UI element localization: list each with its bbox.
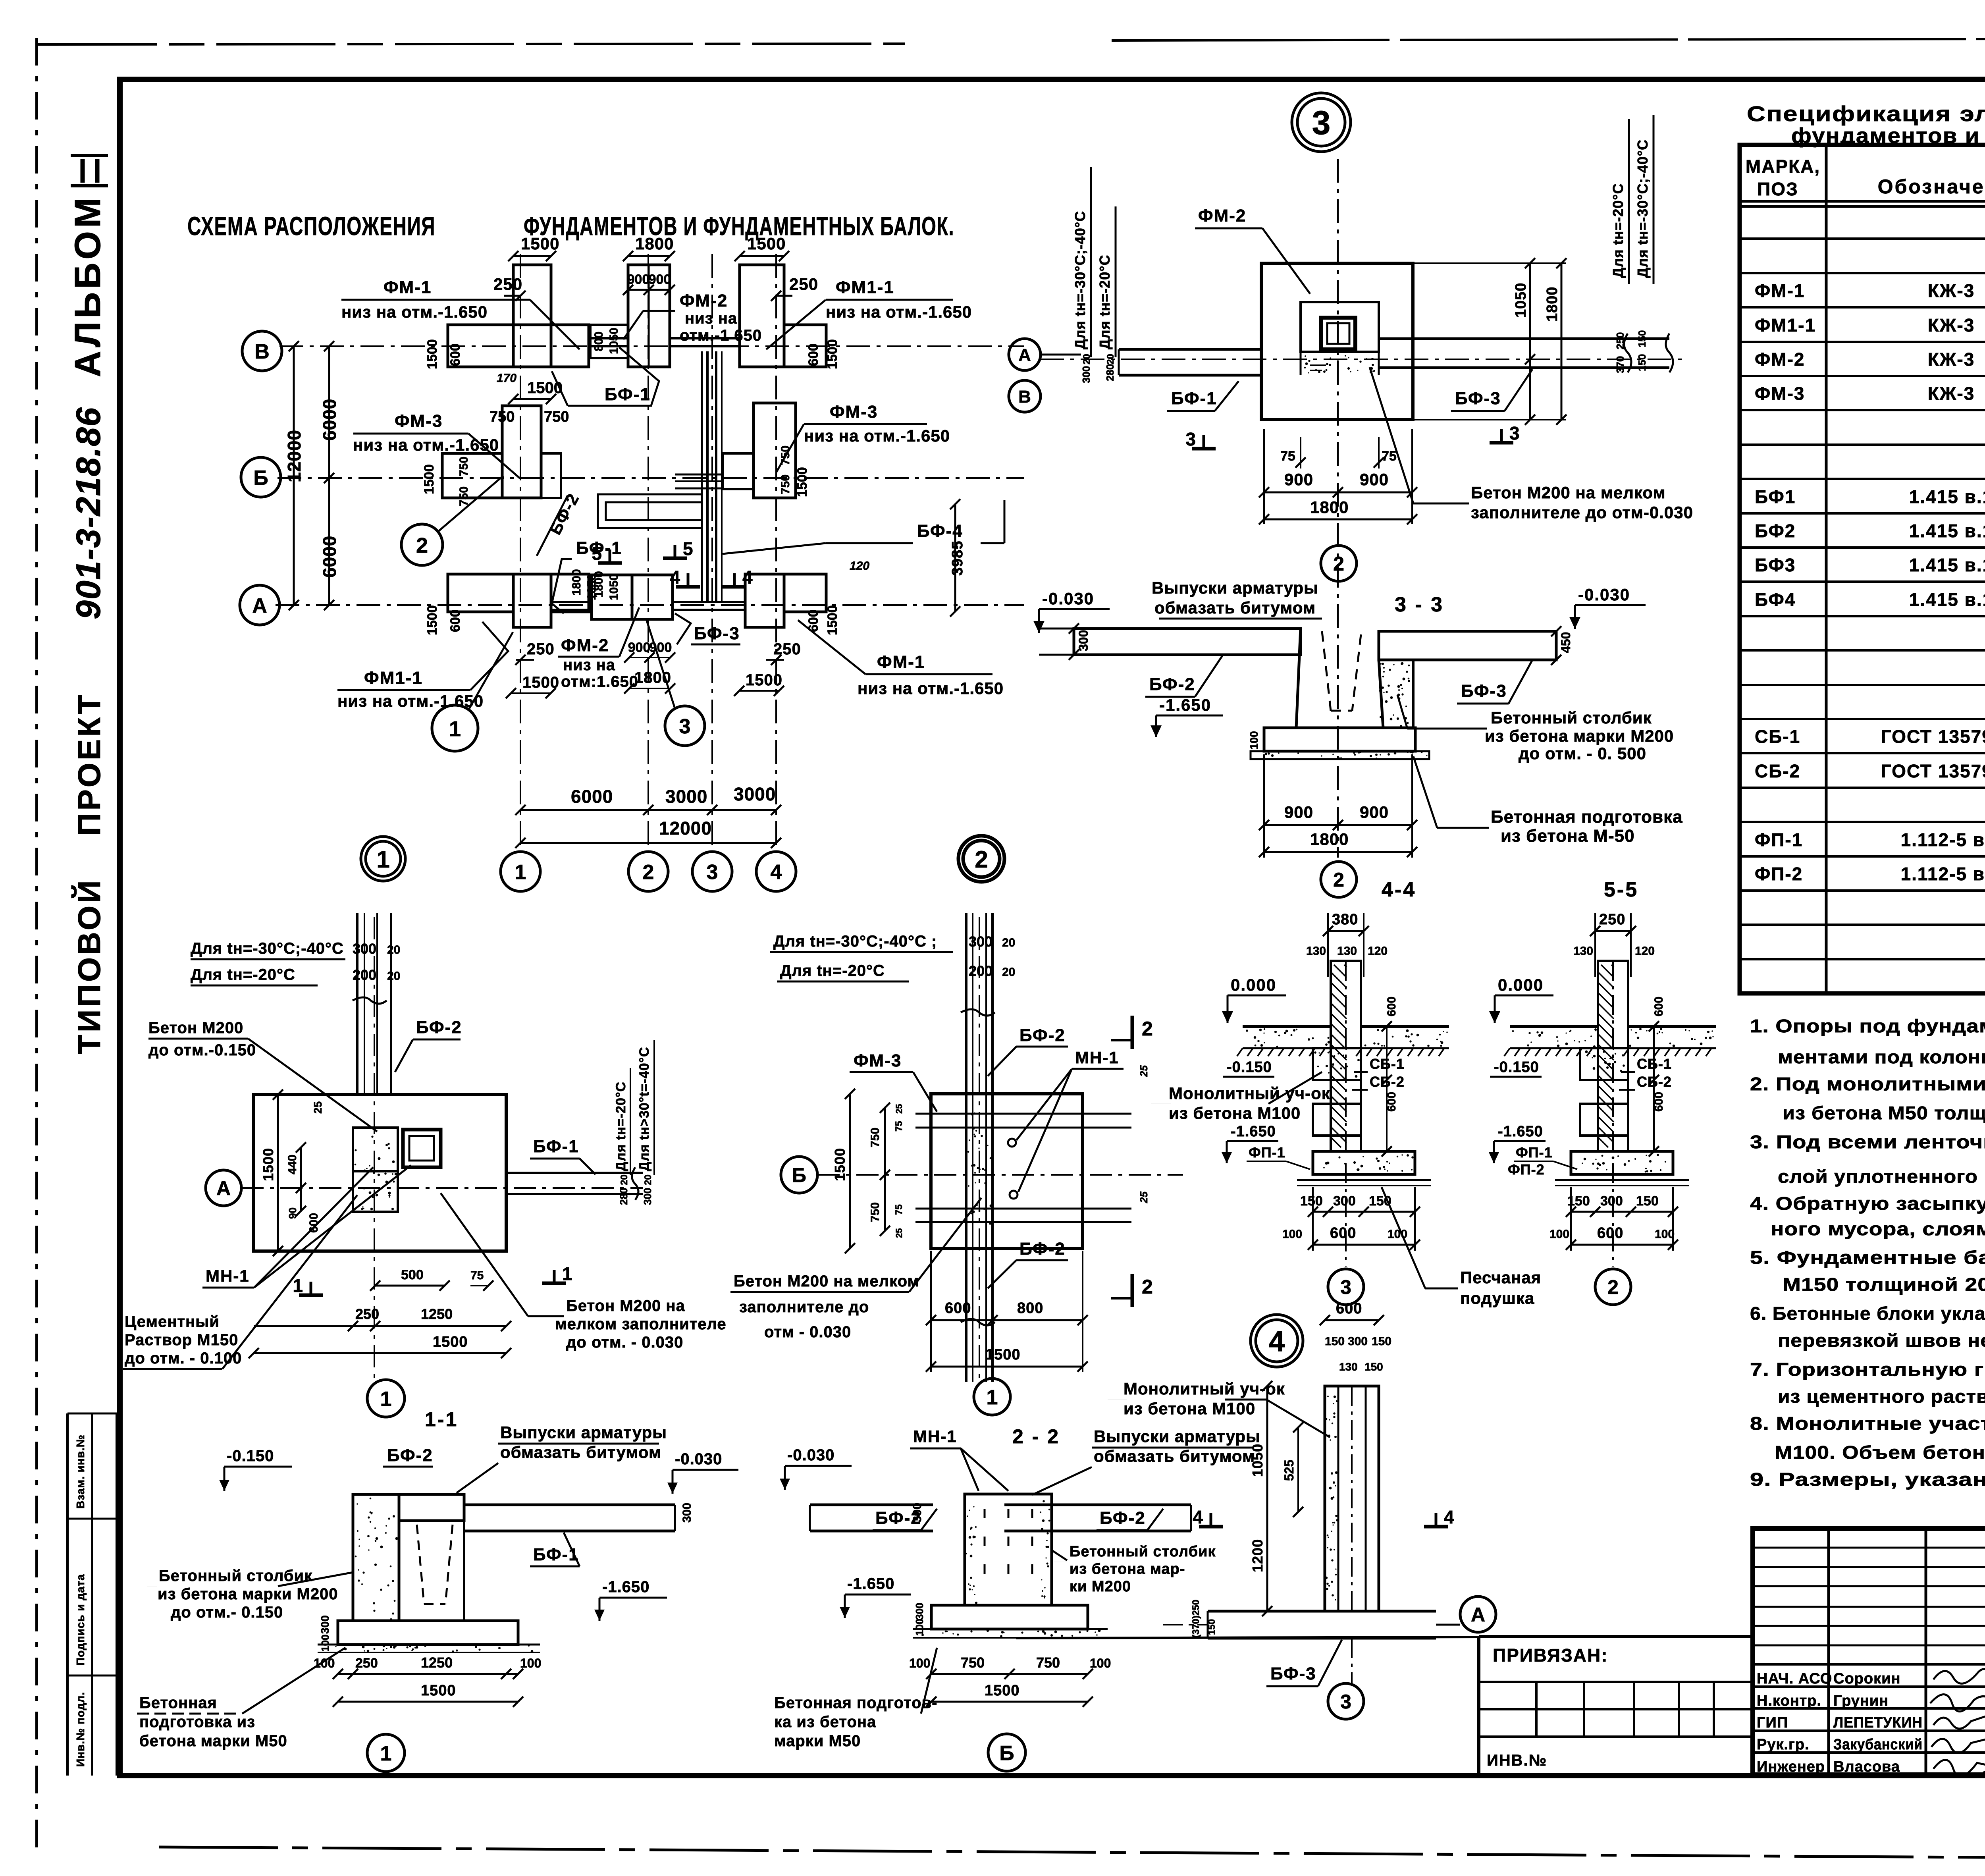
svg-text:ФМ1-1: ФМ1-1 <box>836 278 894 297</box>
svg-text:12000: 12000 <box>659 818 712 839</box>
svg-text:ПРИВЯЗАН:: ПРИВЯЗАН: <box>1493 1645 1608 1666</box>
svg-text:Бетонный столбик: Бетонный столбик <box>1070 1543 1216 1560</box>
svg-text:-1.650: -1.650 <box>602 1578 649 1596</box>
svg-text:1. Опоры под фундаментные балк: 1. Опоры под фундаментные балки бетониро… <box>1750 1016 1985 1036</box>
wall section pad underlayer <box>1297 1179 1431 1181</box>
svg-text:(370)250: (370)250 <box>1191 1600 1201 1638</box>
plan top dimension 1500 over pad 4 <box>740 255 784 257</box>
svg-text:900: 900 <box>627 272 650 287</box>
svg-text:1500: 1500 <box>795 467 810 497</box>
svg-text:130: 130 <box>1339 1361 1358 1373</box>
svg-text:750: 750 <box>869 1128 882 1147</box>
svg-text:170: 170 <box>497 372 516 385</box>
svg-text:1500: 1500 <box>522 674 559 691</box>
svg-text:низ на отм.-1.650: низ на отм.-1.650 <box>353 436 499 454</box>
svg-text:300: 300 <box>1333 1193 1356 1209</box>
svg-text:Монолитный уч-ок: Монолитный уч-ок <box>1124 1379 1285 1398</box>
svg-text:ГОСТ 13579-78: ГОСТ 13579-78 <box>1881 761 1985 781</box>
svg-text:1250: 1250 <box>421 1306 453 1322</box>
svg-text:1500: 1500 <box>421 1682 456 1699</box>
svg-text:подушка: подушка <box>1460 1289 1534 1307</box>
svg-text:Выпуски арматуры: Выпуски арматуры <box>1152 578 1318 597</box>
svg-text:ЛЕПЕТУКИН: ЛЕПЕТУКИН <box>1833 1714 1923 1731</box>
svg-text:250: 250 <box>773 640 801 658</box>
svg-text:1800: 1800 <box>1310 498 1349 517</box>
svg-text:БФ2: БФ2 <box>1755 521 1796 541</box>
node 3 bottom dims 900 900 1800 <box>1264 492 1412 494</box>
svg-text:150: 150 <box>1636 1193 1659 1209</box>
svg-text:25: 25 <box>1138 1065 1150 1077</box>
svg-text:обмазать битумом: обмазать битумом <box>1094 1447 1255 1465</box>
plan bottom dimension chain 6000 3000 3000 <box>520 809 776 811</box>
svg-text:Бетонная: Бетонная <box>139 1694 217 1712</box>
svg-text:Выпуски арматуры: Выпуски арматуры <box>500 1423 667 1442</box>
svg-text:1050: 1050 <box>1513 282 1529 318</box>
section 2-2 bottom dims <box>931 1673 1088 1675</box>
svg-text:ФП-2: ФП-2 <box>1508 1161 1545 1178</box>
svg-text:Для tн=-30°C;-40°C: Для tн=-30°C;-40°C <box>191 940 344 957</box>
svg-text:низ на: низ на <box>685 310 737 327</box>
svg-text:заполнителе до: заполнителе до <box>739 1298 869 1316</box>
plan bottom axis circle 1 <box>501 852 540 891</box>
node 2 beam BF-2 vertical <box>965 913 967 1382</box>
svg-text:-0.030: -0.030 <box>1042 589 1094 608</box>
node 3 beam BF-1 left <box>1119 348 1261 351</box>
svg-text:100: 100 <box>314 1656 335 1670</box>
svg-text:ПОЗ: ПОЗ <box>1757 179 1798 199</box>
svg-text:СБ-1: СБ-1 <box>1755 726 1800 747</box>
svg-text:БФ-3: БФ-3 <box>694 624 740 643</box>
plan big node circle 2 <box>958 836 1004 882</box>
svg-text:ФМ-3: ФМ-3 <box>830 402 878 422</box>
svg-text:25: 25 <box>1138 1192 1150 1203</box>
svg-text:250: 250 <box>355 1306 379 1322</box>
section 1-1 pedestal top slab <box>399 1494 464 1521</box>
svg-text:1800: 1800 <box>570 569 583 596</box>
svg-text:4: 4 <box>1193 1507 1203 1527</box>
node 2 inner rails <box>915 1113 1131 1115</box>
svg-text:подготовка из: подготовка из <box>139 1713 255 1731</box>
svg-text:-0.030: -0.030 <box>787 1446 834 1464</box>
plan dim 3985 rotated <box>954 504 956 611</box>
svg-text:БФ-2: БФ-2 <box>416 1018 462 1037</box>
svg-text:800: 800 <box>1017 1300 1043 1317</box>
plan axis circle V <box>242 331 282 371</box>
plan pad FM1-1 at axis4/V <box>740 265 784 367</box>
svg-text:25: 25 <box>312 1101 324 1114</box>
svg-text:100: 100 <box>1248 731 1260 750</box>
svg-text:75: 75 <box>470 1269 484 1282</box>
wall section foundation blocks <box>1580 1048 1628 1080</box>
section 1-1 pedestal concrete column <box>353 1494 399 1621</box>
node 4 left vertical dims <box>1266 1386 1268 1611</box>
svg-text:750: 750 <box>1036 1654 1060 1671</box>
svg-text:600: 600 <box>806 343 821 366</box>
svg-text:380: 380 <box>1332 911 1358 928</box>
plan pad FM-1 at axis1/V <box>513 265 551 367</box>
plan bottom axis circle 2 <box>628 852 668 891</box>
svg-text:150: 150 <box>1325 1335 1345 1348</box>
svg-text:ПРОЕКТ: ПРОЕКТ <box>71 692 107 836</box>
plan top dimension 1500 over pad 1 <box>513 255 551 257</box>
svg-text:300: 300 <box>642 1188 653 1205</box>
svg-text:БФ-2: БФ-2 <box>1019 1239 1066 1259</box>
section 3-3 base plate <box>1264 728 1415 751</box>
svg-text:Закубанский: Закубанский <box>1833 1736 1923 1753</box>
plan pad FM-3 at axis4/B <box>754 403 796 498</box>
svg-text:900: 900 <box>628 640 651 655</box>
svg-text:1800: 1800 <box>1310 830 1349 848</box>
svg-text:150: 150 <box>1636 354 1648 371</box>
plan section marks 5 <box>598 561 622 565</box>
section 1-1 beam BF-1 right slab <box>464 1504 675 1506</box>
svg-text:1500: 1500 <box>433 1334 468 1350</box>
section 2-2 prep layer <box>913 1628 1108 1630</box>
svg-text:1: 1 <box>515 861 526 884</box>
svg-text:ФМ1-1: ФМ1-1 <box>364 668 423 688</box>
svg-text:5: 5 <box>683 538 693 559</box>
section 3-3 prep layer <box>1251 751 1429 759</box>
svg-text:из бетона марки М200: из бетона марки М200 <box>1485 727 1674 745</box>
svg-text:2: 2 <box>1333 869 1344 891</box>
svg-text:Взам. инв.№: Взам. инв.№ <box>74 1434 87 1509</box>
svg-text:3 - 3: 3 - 3 <box>1395 593 1444 616</box>
svg-text:Для tн=-30°C;-40°C: Для tн=-30°C;-40°C <box>1634 139 1651 278</box>
node 2 pad outline <box>931 1094 1083 1248</box>
svg-text:1: 1 <box>380 1388 392 1411</box>
svg-text:300: 300 <box>1348 1335 1368 1348</box>
svg-text:20: 20 <box>1002 966 1015 979</box>
svg-text:Обозначение: Обозначение <box>1878 175 1985 198</box>
svg-text:В: В <box>254 340 270 363</box>
svg-text:5: 5 <box>592 543 602 564</box>
plan pad FM1-1 at axis1/A <box>513 574 551 627</box>
wall section bottom axis circle <box>1328 1269 1364 1305</box>
svg-text:НАЧ. АСО: НАЧ. АСО <box>1757 1670 1832 1687</box>
wall section top dim 250 <box>1595 930 1631 932</box>
svg-text:130: 130 <box>1573 945 1593 958</box>
section 3-3 concrete column stipple <box>1379 659 1410 727</box>
svg-text:800: 800 <box>592 332 605 351</box>
svg-text:-0.150: -0.150 <box>227 1447 274 1465</box>
svg-text:120: 120 <box>850 559 869 573</box>
spec table outer box <box>1740 145 1985 993</box>
plan bottom axis circle 3 <box>692 852 732 891</box>
outer border bottom edge <box>159 1847 1985 1861</box>
section 2-2 pedestal <box>965 1494 1052 1605</box>
privyazan box <box>1016 1637 1479 1638</box>
svg-text:Раствор М150: Раствор М150 <box>125 1331 238 1349</box>
svg-text:Песчаная: Песчаная <box>1460 1268 1541 1287</box>
svg-text:600: 600 <box>1652 997 1665 1016</box>
svg-text:Цементный: Цементный <box>125 1313 220 1330</box>
svg-text:МН-1: МН-1 <box>206 1267 250 1285</box>
svg-text:3: 3 <box>1340 1276 1351 1298</box>
svg-text:25: 25 <box>894 1104 904 1114</box>
svg-text:75: 75 <box>1280 449 1295 464</box>
svg-text:600: 600 <box>1330 1225 1356 1242</box>
stamp signatures <box>1930 1669 1985 1777</box>
svg-text:из бетона М100: из бетона М100 <box>1169 1104 1301 1122</box>
plan horizontal axis line A <box>276 604 1024 606</box>
plan horizontal axis line V <box>279 345 1024 347</box>
svg-text:Монолитный уч-ок: Монолитный уч-ок <box>1169 1084 1330 1103</box>
plan dimension 900 900 over pad 2 <box>628 289 670 291</box>
wall section top dim 380 <box>1328 930 1364 932</box>
svg-text:А: А <box>1018 345 1031 365</box>
node 1 axis circle A <box>206 1170 241 1206</box>
svg-text:250: 250 <box>493 275 522 293</box>
svg-text:20: 20 <box>619 1174 630 1185</box>
node 3 bottom axis circle 2 <box>1321 546 1357 581</box>
svg-text:300: 300 <box>911 1503 924 1523</box>
stamp left thin rows <box>1753 1547 1985 1549</box>
wall section masonry wall <box>1331 961 1361 1151</box>
plan node callout circle 3 <box>665 706 705 746</box>
svg-text:5. Фундаментные балки укла: 5. Фундаментные балки укладывать на слой… <box>1750 1247 1985 1268</box>
svg-text:Н.контр.: Н.контр. <box>1757 1693 1821 1709</box>
node 3 big circle <box>1292 93 1351 152</box>
svg-text:БФ-1: БФ-1 <box>533 1137 579 1156</box>
svg-text:1500: 1500 <box>425 605 440 635</box>
svg-text:370: 370 <box>1614 356 1626 373</box>
svg-text:600: 600 <box>945 1300 971 1317</box>
node 1 section marks 1 <box>299 1294 323 1297</box>
svg-text:отм.-1 650: отм.-1 650 <box>680 327 762 344</box>
svg-text:3000: 3000 <box>665 786 707 807</box>
node 2 small circles MN-1 targets <box>1008 1139 1016 1147</box>
svg-text:низ на отм.-1.650: низ на отм.-1.650 <box>804 426 950 445</box>
svg-text:900: 900 <box>1360 803 1389 821</box>
svg-text:марки М50: марки М50 <box>774 1732 861 1750</box>
svg-text:100: 100 <box>1655 1228 1675 1241</box>
plan axis circle A <box>240 585 279 625</box>
svg-text:1: 1 <box>987 1386 998 1409</box>
plan pad FM-1 at axis4/A <box>745 574 784 627</box>
section 1-1 dashed cone <box>417 1525 424 1604</box>
wall section pad underlayer <box>1555 1179 1689 1181</box>
svg-text:250: 250 <box>527 640 555 658</box>
svg-text:ФП-1: ФП-1 <box>1516 1144 1553 1161</box>
svg-text:-1.650: -1.650 <box>1498 1123 1543 1140</box>
svg-text:600: 600 <box>1385 997 1398 1016</box>
svg-text:МН-1: МН-1 <box>1075 1048 1119 1067</box>
svg-text:ФМ-1: ФМ-1 <box>384 278 432 297</box>
svg-text:100: 100 <box>913 1619 925 1636</box>
node 2 axis dash-dot <box>817 1174 1183 1176</box>
svg-text:300: 300 <box>1600 1193 1623 1209</box>
svg-text:М100. Объем бетона на мо: М100. Объем бетона на монолитные участки… <box>1775 1442 1985 1463</box>
section 1-1 pedestal body <box>399 1521 464 1621</box>
node 3 right vertical dims 1050 1800 <box>1529 263 1531 420</box>
svg-text:2: 2 <box>1142 1018 1153 1040</box>
svg-text:Инв.№ подл.: Инв.№ подл. <box>74 1692 87 1767</box>
wall section floor slab <box>1243 1025 1331 1028</box>
svg-text:150: 150 <box>1300 1193 1323 1209</box>
svg-text:120: 120 <box>1368 945 1388 958</box>
svg-text:ФМ-2: ФМ-2 <box>561 636 609 655</box>
node 3 pedestal below column <box>1300 352 1302 375</box>
svg-text:1050: 1050 <box>607 328 621 354</box>
wall section bottom dims <box>1571 1211 1673 1213</box>
section 3-3 pedestal dashed cone <box>1322 631 1331 711</box>
svg-text:ФП-1: ФП-1 <box>1755 829 1803 850</box>
svg-text:250: 250 <box>789 275 818 293</box>
svg-text:900: 900 <box>1284 470 1313 489</box>
svg-text:4-4: 4-4 <box>1382 878 1416 901</box>
svg-text:БФ-1: БФ-1 <box>533 1545 579 1564</box>
svg-text:600: 600 <box>1597 1225 1623 1242</box>
svg-text:1.415 в.1: 1.415 в.1 <box>1909 589 1985 610</box>
svg-text:низ на отм.-1.650: низ на отм.-1.650 <box>858 679 1004 698</box>
svg-text:100: 100 <box>520 1656 541 1670</box>
node 3 beam break squiggle <box>1624 334 1631 372</box>
svg-text:БФ-2: БФ-2 <box>1019 1026 1066 1045</box>
svg-text:отм:1.650: отм:1.650 <box>561 673 638 690</box>
svg-text:500: 500 <box>401 1267 424 1282</box>
svg-text:100: 100 <box>909 1656 930 1670</box>
svg-text:из бетона мар-: из бетона мар- <box>1070 1561 1185 1577</box>
svg-text:Бетонная подготовка: Бетонная подготовка <box>1491 807 1683 827</box>
svg-text:Для tн=-20°C: Для tн=-20°C <box>613 1082 628 1171</box>
plan left dimension chain 6000 6000 <box>328 346 330 605</box>
svg-text:Бетон М200 на мелком: Бетон М200 на мелком <box>1471 483 1666 502</box>
wall section soil hatch <box>1237 1048 1325 1056</box>
node 1 column box <box>403 1130 441 1167</box>
node 1 pad inner blocks <box>353 1128 398 1171</box>
plan vertical axis line 4 <box>775 254 777 852</box>
svg-text:150: 150 <box>1206 1619 1217 1635</box>
outer dash-dot border left edge <box>35 38 38 1850</box>
svg-text:75: 75 <box>894 1204 904 1215</box>
svg-text:БФ-1: БФ-1 <box>605 385 651 404</box>
wall section bottom dims <box>1313 1211 1415 1213</box>
node 2 bottom dims 600 800 1500 <box>931 1319 1083 1321</box>
svg-text:Рук.гр.: Рук.гр. <box>1757 1736 1810 1753</box>
svg-text:6000: 6000 <box>571 786 613 807</box>
svg-text:ФМ1-1: ФМ1-1 <box>1755 315 1816 335</box>
section 3-3 pedestal <box>1296 629 1383 728</box>
svg-text:300: 300 <box>1076 630 1091 651</box>
node 4 section marks 4 <box>1199 1525 1223 1529</box>
svg-text:4: 4 <box>670 567 680 588</box>
svg-text:300: 300 <box>680 1503 694 1523</box>
plan beam elbow jog <box>598 494 702 528</box>
section 3-3 bottom axis circle 2 <box>1321 862 1357 897</box>
plan vertical axis line 3 <box>711 254 713 852</box>
svg-text:6. Бетонные блоки укладывать: 6. Бетонные блоки укладывать на цементно… <box>1750 1303 1985 1324</box>
svg-text:МН-1: МН-1 <box>913 1427 957 1446</box>
svg-text:25: 25 <box>894 1228 904 1238</box>
svg-text:1800: 1800 <box>1544 286 1561 322</box>
svg-text:Подпись и дата: Подпись и дата <box>74 1574 87 1666</box>
wall section wall hatch <box>1331 965 1347 1147</box>
svg-text:ментами под колонны в той же о: ментами под колонны в той же опалувке. <box>1778 1047 1985 1067</box>
svg-text:1-1: 1-1 <box>425 1408 458 1431</box>
svg-text:130: 130 <box>1337 945 1357 958</box>
svg-text:2: 2 <box>1607 1276 1619 1298</box>
privyazan grid <box>1479 1681 1753 1683</box>
svg-text:300: 300 <box>319 1615 331 1634</box>
svg-text:СХЕМА РАСПОЛОЖЕНИЯ: СХЕМА РАСПОЛОЖЕНИЯ <box>187 211 436 241</box>
svg-text:отм - 0.030: отм - 0.030 <box>764 1323 851 1341</box>
svg-text:5-5: 5-5 <box>1604 878 1638 901</box>
section 1-1 bottom dims <box>338 1673 518 1675</box>
svg-text:3: 3 <box>1185 429 1196 449</box>
svg-text:-1.650: -1.650 <box>1231 1123 1276 1140</box>
svg-text:БФ-2: БФ-2 <box>1149 675 1195 694</box>
svg-text:А: А <box>1471 1604 1485 1626</box>
svg-text:2 - 2: 2 - 2 <box>1012 1425 1060 1448</box>
node 1 axis dash-dot lines <box>241 1187 643 1189</box>
svg-text:750: 750 <box>457 486 470 506</box>
svg-text:-0.030: -0.030 <box>675 1450 722 1468</box>
svg-text:3985: 3985 <box>949 540 966 576</box>
spec table column lines <box>1825 145 1828 993</box>
svg-text:2: 2 <box>643 861 654 884</box>
svg-text:Для tн=-20°C: Для tн=-20°C <box>191 966 295 983</box>
plan vertical beam BF-4 double lines <box>706 351 709 602</box>
svg-text:2: 2 <box>1142 1276 1153 1298</box>
node 3 outer pad square FM-2 <box>1261 263 1413 420</box>
svg-text:280: 280 <box>618 1188 630 1205</box>
svg-text:750: 750 <box>490 409 515 425</box>
svg-text:130: 130 <box>1306 945 1326 958</box>
svg-text:Власова: Власова <box>1833 1758 1900 1775</box>
svg-text:1.415 в.1: 1.415 в.1 <box>1909 555 1985 575</box>
node 1 bottom axis circle 1 <box>367 1380 405 1417</box>
svg-text:Выпуски арматуры: Выпуски арматуры <box>1094 1427 1260 1446</box>
node 2 axis circle B <box>781 1157 817 1193</box>
svg-text:20: 20 <box>387 970 400 983</box>
svg-text:750: 750 <box>544 409 569 425</box>
svg-text:750: 750 <box>457 457 470 476</box>
section 3-3 left slab BF-2 <box>1074 629 1301 655</box>
svg-text:КЖ-3: КЖ-3 <box>1928 315 1975 335</box>
plan beam BF-1 top double line <box>589 337 628 339</box>
svg-text:1500: 1500 <box>746 671 782 689</box>
section 3-3 right slab BF-3 <box>1379 631 1556 660</box>
svg-text:600: 600 <box>448 609 463 632</box>
svg-text:75: 75 <box>894 1121 904 1132</box>
svg-text:ИНВ.№: ИНВ.№ <box>1487 1752 1547 1769</box>
svg-text:600: 600 <box>448 343 463 366</box>
svg-text:100: 100 <box>319 1635 331 1652</box>
svg-text:ФМ-1: ФМ-1 <box>877 652 925 672</box>
node 3 column box <box>1321 318 1355 349</box>
spec table header underline double <box>1740 200 1985 203</box>
svg-text:750: 750 <box>869 1202 882 1222</box>
svg-text:9. Размеры, указанные в скоб: 9. Размеры, указанные в скобках приведен… <box>1750 1469 1985 1490</box>
svg-text:100: 100 <box>1282 1228 1302 1241</box>
svg-text:мелком заполнителе: мелком заполнителе <box>555 1315 727 1333</box>
svg-text:до отм.- 0.150: до отм.- 0.150 <box>171 1604 283 1621</box>
svg-text:1050: 1050 <box>607 574 621 600</box>
plan beam bottom double line on axis A <box>551 601 592 603</box>
svg-text:75: 75 <box>1382 449 1397 464</box>
svg-text:из бетона М100: из бетона М100 <box>1124 1399 1255 1418</box>
wall section wall hatch <box>1598 965 1614 1147</box>
node 1 pad outline <box>254 1095 506 1251</box>
svg-text:до отм. - 0.100: до отм. - 0.100 <box>125 1350 242 1367</box>
svg-text:Бетонная подготов-: Бетонная подготов- <box>774 1694 937 1712</box>
svg-text:ФУНДАМЕНТОВ И ФУНДАМЕНТНЫХ: ФУНДАМЕНТОВ И ФУНДАМЕНТНЫХ БАЛОК. <box>524 211 954 241</box>
svg-text:А: А <box>216 1177 231 1199</box>
svg-text:ФМ-3: ФМ-3 <box>1755 383 1805 404</box>
svg-text:4: 4 <box>771 861 782 884</box>
svg-text:заполнителе до отм-0.030: заполнителе до отм-0.030 <box>1471 503 1693 522</box>
plan vertical axis line 1 <box>520 254 521 852</box>
